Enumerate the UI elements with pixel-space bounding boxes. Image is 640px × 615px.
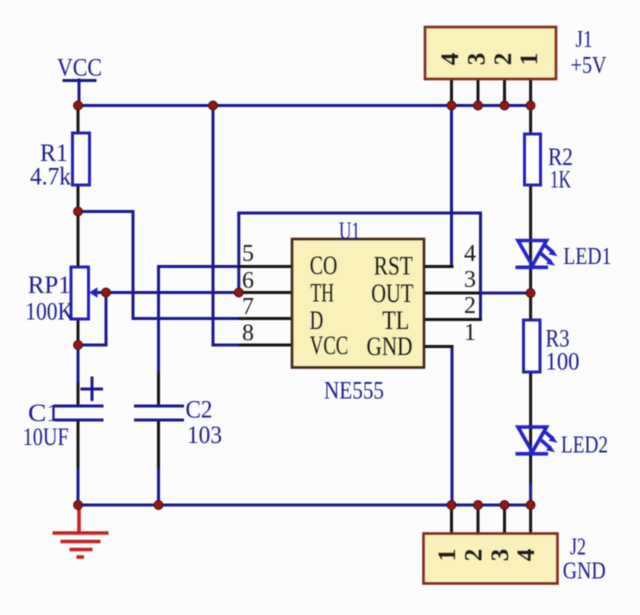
pin J2-2 stub [477,505,480,534]
junction node VCC [74,101,83,110]
wire wiper to pin6 [106,291,240,294]
svg-text:C2: C2 [186,397,213,424]
wire pin5 to C2 [159,267,241,375]
svg-text:RP1: RP1 [28,272,71,299]
wire wiper down to RP1 bottom [78,293,106,346]
connector J1 [425,27,556,79]
junction node rail/C2 [154,501,163,510]
wire LED1 through R3 [529,241,532,320]
connector J2 [424,534,558,584]
svg-text:2: 2 [490,53,517,66]
wire C2 bottom to ground rail [157,420,160,470]
resistor R2 [525,134,541,185]
svg-text:5: 5 [242,241,254,267]
pin J1-4 stub [450,79,453,106]
svg-text:J2: J2 [570,535,586,561]
svg-text:RST: RST [374,252,413,281]
svg-text:3: 3 [487,549,514,562]
capacitor C2 [136,406,183,420]
svg-text:VCC: VCC [310,331,349,360]
wire R3 to LED2 [529,372,532,428]
power flag VCC [64,80,95,105]
svg-text:4: 4 [464,241,476,267]
junction node bus J1-4 [447,101,456,110]
pin J1-1 stub [529,79,532,106]
svg-text:TH: TH [311,279,335,308]
svg-text:1: 1 [434,549,461,562]
svg-text:3: 3 [464,267,476,293]
wire left rail R1 to RP1 [77,106,80,135]
pin J1-2 stub [503,79,506,106]
junction node rail J2-3 [500,501,509,510]
junction node TH loop [235,288,244,297]
svg-text:4: 4 [513,548,540,561]
svg-text:2: 2 [461,549,488,562]
svg-text:100: 100 [546,349,580,376]
junction node bus J1-1 [526,101,535,110]
pin U1-8 stub [240,344,292,347]
svg-text:C1: C1 [28,400,60,427]
wire ground rail [78,504,531,507]
wire R1 bottom to RP1 top [77,185,80,267]
svg-text:U1: U1 [339,218,360,245]
svg-text:LED1: LED1 [563,244,611,270]
wire node A (R1/RP1) to pin7 L-shape [78,212,240,319]
junction node bus J1-2 [500,101,509,110]
svg-text:3: 3 [464,53,491,66]
svg-text:J1: J1 [576,27,593,53]
svg-text:+5V: +5V [571,53,608,79]
junction node rail/C1 [74,501,83,510]
capacitor C1 (polarized) [56,378,102,420]
LED LED1 [516,241,558,268]
svg-text:1: 1 [464,320,476,346]
pin U1-6 stub [240,291,292,294]
potentiometer RP1 [71,267,106,319]
svg-text:1K: 1K [550,167,571,194]
wire LED2 to ground rail [529,428,532,484]
pin U1-3 stub [424,292,478,295]
junction node rail J2-1 [447,501,456,510]
pin J2-3 stub [503,505,506,534]
pin U1-4 stub [424,265,452,268]
svg-text:7: 7 [242,294,254,320]
svg-text:CO: CO [310,251,338,280]
resistor R3 [524,320,541,372]
junction node A R1/RP1/pin7 [74,207,83,216]
junction node bus J1-3 [474,101,483,110]
pin U1-2 stub [424,318,481,321]
svg-text:100K: 100K [25,299,73,326]
wire R2 to LED1 [529,185,532,241]
wire VCC bus to pin8 L-shape [213,106,240,346]
svg-text:GND: GND [367,332,413,361]
pin J2-1 stub [450,505,453,534]
svg-text:103: 103 [187,422,222,449]
pin U1-5 stub [240,265,292,268]
svg-text:10UF: 10UF [23,424,69,451]
svg-text:VCC: VCC [57,55,102,82]
pin J1-3 stub [477,79,480,106]
wire C1 bottom to ground rail [77,420,80,470]
svg-text:GND: GND [563,559,606,585]
junction node bus/pin8 [209,101,218,110]
svg-text:OUT: OUT [371,279,413,308]
wire OUT pin3 to LED column [478,292,531,295]
wire TH-TL loop pin6 to pin2 [239,213,481,320]
op-amp U1 body (NE555 timer IC) [292,239,424,368]
svg-text:TL: TL [382,306,409,335]
svg-text:NE555: NE555 [324,378,384,405]
wire RP1 bottom to C1 [77,319,80,347]
pin J2-4 stub [529,505,532,534]
svg-text:4.7k: 4.7k [30,164,71,191]
LED LED2 [516,427,558,454]
pin U1-1 stub [424,345,452,348]
junction node OUT/LED column [526,289,535,298]
svg-text:2: 2 [464,293,476,319]
pin U1-7 stub [240,317,292,320]
svg-text:4: 4 [437,52,464,65]
junction node RP1 bottom [74,341,83,350]
wire VCC bus down to RST pin4 [450,106,453,267]
wire GND pin1 down to ground rail [451,347,454,506]
ground symbol [53,506,109,557]
resistor R1 [73,133,90,185]
svg-text:1: 1 [516,53,543,66]
junction node rail J2-4 [526,501,535,510]
svg-text:6: 6 [242,268,254,294]
junction node rail J2-2 [474,501,483,510]
wire VCC top bus [78,104,531,107]
svg-text:8: 8 [242,321,254,347]
svg-text:LED2: LED2 [561,433,608,459]
wire R2 column from bus [529,106,532,135]
junction node wiper [102,288,111,297]
